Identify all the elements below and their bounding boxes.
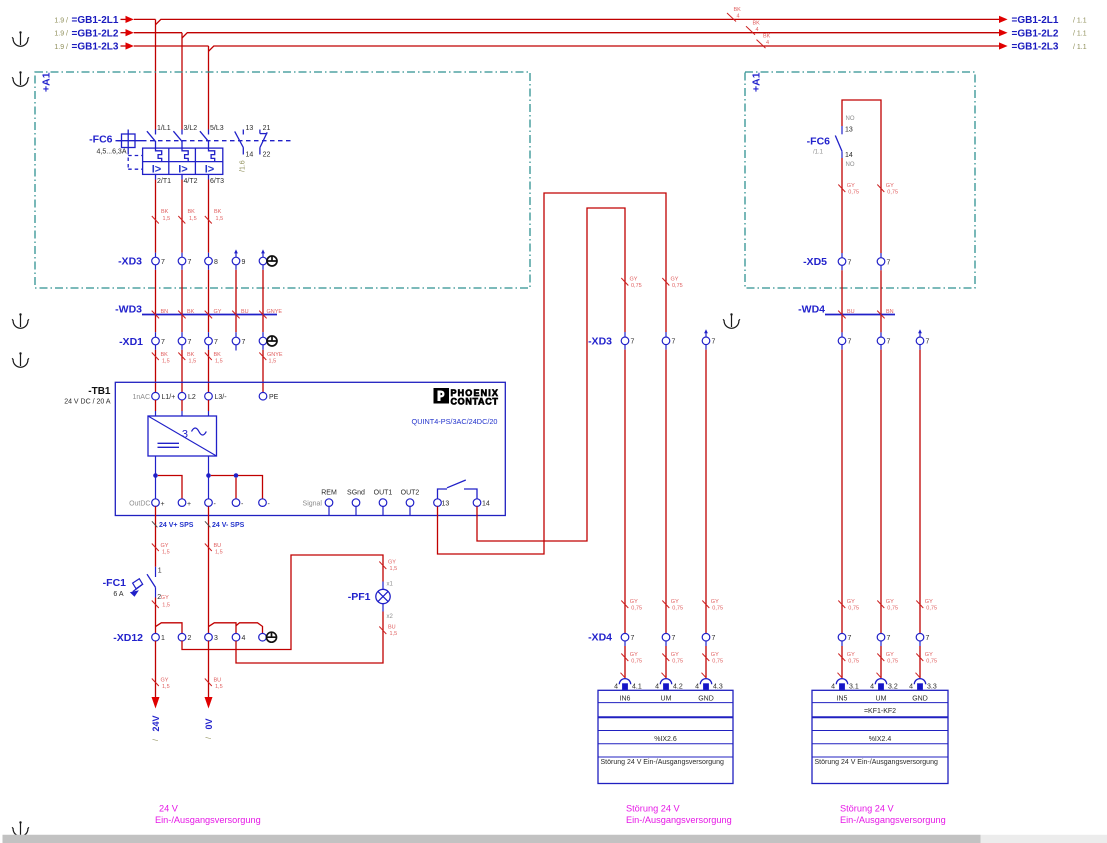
- svg-text:GY: GY: [886, 599, 894, 605]
- wire FC1:2 to XD12:1 with GY 1,5: [152, 595, 170, 633]
- svg-text:GY: GY: [161, 678, 169, 684]
- wire XD1:7b to TB1 L2 with BK 1,5: [178, 345, 196, 393]
- terminal XD12:2: [178, 633, 191, 642]
- svg-text:-TB1: -TB1: [88, 386, 111, 397]
- svg-text:BK: BK: [763, 34, 771, 40]
- svg-text:/: /: [153, 739, 160, 741]
- svg-text:Ein-/Ausgangsversorgung: Ein-/Ausgangsversorgung: [840, 815, 946, 825]
- svg-text:/ 1.1: / 1.1: [1073, 31, 1087, 38]
- svg-text:2/T1: 2/T1: [157, 178, 171, 185]
- jumper bridge XD12 1-2: [156, 623, 183, 633]
- svg-text:BU: BU: [241, 309, 249, 315]
- svg-text:BN: BN: [886, 309, 894, 315]
- wire 6/T3 to XD3:8 with BK 1,5: [205, 180, 223, 253]
- svg-text:7: 7: [242, 339, 246, 346]
- svg-text:/: /: [206, 737, 213, 739]
- svg-text:1,5: 1,5: [216, 216, 224, 222]
- svg-text:4: 4: [242, 635, 246, 642]
- svg-text:6/T3: 6/T3: [210, 178, 224, 185]
- svg-text:1,5: 1,5: [162, 550, 170, 556]
- svg-text:GND: GND: [698, 696, 714, 703]
- svg-text:GY: GY: [711, 652, 719, 658]
- svg-text:7: 7: [161, 259, 165, 266]
- wire XD3:7b to XD1:7b: [181, 265, 183, 337]
- svg-text:GY: GY: [671, 652, 679, 658]
- terminal row right:7 c with arrow stub: [916, 329, 929, 345]
- svg-text:I>: I>: [205, 163, 214, 175]
- svg-text:7: 7: [887, 339, 891, 346]
- svg-text:L1/+: L1/+: [162, 394, 176, 401]
- svg-text:GY: GY: [925, 652, 933, 658]
- wire right a to plug 3.1 with GY 0,75: [838, 641, 860, 678]
- svg-text:SGnd: SGnd: [347, 489, 365, 496]
- TB1 output terminal +2: [178, 499, 191, 508]
- svg-text:/1.6: /1.6: [240, 160, 247, 172]
- svg-text:0,75: 0,75: [926, 659, 937, 665]
- svg-text:BK: BK: [161, 209, 169, 215]
- svg-text:3: 3: [182, 429, 188, 441]
- terminal XD3mid:7 a: [621, 337, 634, 346]
- anchor clip symbol mid-left 4: [12, 352, 29, 367]
- svg-text:I>: I>: [178, 163, 187, 175]
- PLC input box right (IN5 KF1-KF2): [812, 690, 948, 783]
- svg-text:0,75: 0,75: [672, 606, 683, 612]
- svg-text:1,5: 1,5: [189, 359, 197, 365]
- svg-text:OUT2: OUT2: [401, 489, 420, 496]
- FC6 aux NO contact 13/14 right: [807, 116, 855, 168]
- svg-text:GNYE: GNYE: [267, 309, 283, 315]
- svg-text:BU: BU: [847, 309, 855, 315]
- svg-text:BK: BK: [187, 309, 195, 315]
- svg-text:7: 7: [926, 339, 930, 346]
- svg-text:0,75: 0,75: [848, 606, 859, 612]
- wire XD3:PE to XD1:PE: [262, 265, 264, 337]
- terminal XD5:7 a: [838, 258, 851, 267]
- svg-text:-XD1: -XD1: [119, 336, 143, 348]
- svg-text:GY: GY: [886, 183, 894, 189]
- svg-text:GY: GY: [630, 599, 638, 605]
- wire XD4 c to plug 4.3 with GY 0,75: [702, 641, 724, 678]
- TB1 input terminal PE: [259, 392, 278, 401]
- FC6 aux contact mirror (right) hairpin wire: [842, 100, 881, 258]
- svg-text:-XD12: -XD12: [113, 632, 143, 644]
- wire XD3:9 to XD1:7d: [235, 265, 237, 337]
- wire XD5 b down to WD4 row b: [880, 265, 882, 337]
- wire XD3mid a to XD4 a with GY 0,75: [621, 345, 642, 634]
- svg-text:0,75: 0,75: [631, 606, 642, 612]
- svg-text:21: 21: [263, 125, 271, 132]
- wire XD1:7c to TB1 L3/- with BK 1,5: [205, 345, 223, 393]
- TB1 output terminal -2: [232, 499, 244, 508]
- svg-text:+A1: +A1: [41, 72, 53, 92]
- svg-text:4,5...6,3A: 4,5...6,3A: [97, 149, 127, 156]
- wire TB1:13 loop to XD3 middle b: [438, 193, 667, 554]
- wire right c to plug 3.3 with GY 0,75: [916, 641, 938, 678]
- plug pin 4.1: [614, 679, 642, 691]
- svg-text:GY: GY: [630, 652, 638, 658]
- svg-text:7: 7: [214, 339, 218, 346]
- FC6 aux contact 13/14: [235, 125, 254, 159]
- terminal strip XD1 label: [119, 336, 143, 348]
- svg-text:OUT1: OUT1: [374, 489, 393, 496]
- svg-text:7: 7: [672, 635, 676, 642]
- wire XD5 a down to WD4 row a: [841, 265, 843, 337]
- plug pin 3.2: [870, 679, 898, 691]
- plug pin 4.3: [695, 679, 723, 691]
- svg-text:Störung 24 V Ein-/Ausgangsvers: Störung 24 V Ein-/Ausgangsversorgung: [815, 759, 938, 766]
- wire right b to plug 3.2 with GY 0,75: [877, 641, 899, 678]
- svg-text:22: 22: [263, 152, 271, 159]
- power supply TB1 box: [64, 382, 505, 515]
- wire PF1:x2 to XD12:4 with BU 1,5: [236, 612, 397, 664]
- terminal strip XD5 label: [803, 256, 827, 268]
- svg-text:4: 4: [756, 27, 759, 33]
- svg-text:1,5: 1,5: [163, 216, 171, 222]
- svg-text:L2: L2: [188, 394, 196, 401]
- terminal XD3mid:7 c with arrow stub: [702, 329, 715, 345]
- svg-text:/ 1.1: / 1.1: [1073, 44, 1087, 51]
- svg-text:-FC6: -FC6: [89, 134, 112, 146]
- TB1 relay contact 13/14: [434, 480, 490, 508]
- terminal right row2:7 b: [877, 633, 890, 642]
- svg-text:UM: UM: [661, 696, 672, 703]
- svg-text:QUINT4-PS/3AC/24DC/20: QUINT4-PS/3AC/24DC/20: [412, 417, 498, 426]
- svg-text:1,5: 1,5: [162, 603, 170, 609]
- svg-text:5/L3: 5/L3: [210, 125, 224, 132]
- TB1 output wiring with junction dots: [153, 456, 262, 499]
- svg-text:13: 13: [246, 125, 254, 132]
- wire L3 drop to FC6 pole 3: [208, 46, 210, 130]
- svg-text:BK: BK: [161, 352, 169, 358]
- svg-text:3: 3: [214, 635, 218, 642]
- svg-text:1,5: 1,5: [215, 359, 223, 365]
- svg-text:Ein-/Ausgangsversorgung: Ein-/Ausgangsversorgung: [626, 815, 732, 825]
- svg-text:1,5: 1,5: [215, 684, 223, 690]
- svg-text:0,75: 0,75: [672, 659, 683, 665]
- svg-text:BK: BK: [214, 209, 222, 215]
- svg-text:-PF1: -PF1: [348, 591, 371, 603]
- wire right c down with GY 0,75: [916, 345, 937, 634]
- jumper bridge XD12 3-4: [209, 623, 237, 633]
- wire L1 drop to FC6 pole 1: [155, 19, 157, 129]
- svg-text:IN5: IN5: [837, 696, 848, 703]
- svg-text:-XD5: -XD5: [803, 256, 827, 268]
- TB1 output terminal -3: [259, 499, 271, 508]
- svg-text:-FC6: -FC6: [807, 136, 830, 148]
- TB1 signal terminal OUT2: [401, 489, 420, 515]
- svg-text:1,5: 1,5: [162, 359, 170, 365]
- svg-text:4: 4: [766, 40, 769, 46]
- terminal XD1:7 b: [178, 337, 191, 346]
- svg-text:24V: 24V: [151, 715, 161, 731]
- terminal XD1:PE: [259, 336, 277, 346]
- svg-text:-XD3: -XD3: [118, 256, 142, 268]
- terminal XD1:7 d with dead stub: [232, 337, 245, 350]
- Phoenix Contact logo: [434, 388, 499, 407]
- wire 2/T1 to XD3:7 with BK 1,5: [152, 180, 170, 253]
- svg-text:7: 7: [887, 635, 891, 642]
- indicator lamp PF1: [348, 582, 394, 621]
- svg-text:-WD3: -WD3: [115, 304, 142, 316]
- svg-text:=GB1-2L3: =GB1-2L3: [1012, 42, 1059, 53]
- enclosure box +A1 left (dashed): [35, 72, 530, 288]
- svg-text:-XD4: -XD4: [588, 632, 612, 644]
- svg-text:13: 13: [845, 127, 853, 134]
- terminal strip XD4 label: [588, 632, 612, 644]
- svg-text:GY: GY: [847, 652, 855, 658]
- svg-text:1,5: 1,5: [390, 631, 398, 637]
- wire XD3mid c to XD4 c with GY 0,75: [702, 345, 723, 634]
- wire right a down with GY 0,75: [838, 345, 859, 634]
- svg-text:14: 14: [482, 501, 490, 508]
- terminal XD4:7 b: [662, 633, 675, 642]
- FC6 aux cross-reference /1.6: [240, 160, 247, 172]
- svg-text:GY: GY: [847, 599, 855, 605]
- svg-text:L3/-: L3/-: [215, 394, 228, 401]
- svg-text:7: 7: [631, 635, 635, 642]
- svg-text:8: 8: [214, 259, 218, 266]
- wire XD3mid b to XD4 b with GY 0,75: [662, 345, 683, 634]
- anchor clip symbol center 5: [723, 313, 740, 328]
- TB1 output terminal -1: [205, 499, 217, 508]
- svg-text:Ein-/Ausgangsversorgung: Ein-/Ausgangsversorgung: [155, 815, 261, 825]
- svg-text:/1.1: /1.1: [813, 150, 824, 156]
- svg-text:BU: BU: [214, 678, 222, 684]
- terminal right row2:7 a: [838, 633, 851, 642]
- svg-text:1: 1: [161, 635, 165, 642]
- svg-text:0,75: 0,75: [712, 606, 723, 612]
- svg-text:=GB1-2L1: =GB1-2L1: [72, 15, 119, 26]
- svg-text:14: 14: [246, 152, 254, 159]
- svg-text:7: 7: [926, 635, 930, 642]
- svg-text:x2: x2: [387, 614, 394, 620]
- svg-text:7: 7: [161, 339, 165, 346]
- svg-text:GY: GY: [925, 599, 933, 605]
- svg-text:GY: GY: [847, 183, 855, 189]
- svg-text:2: 2: [188, 635, 192, 642]
- function text Störung 24V middle (magenta): [626, 804, 732, 826]
- terminal XD1:7 c: [205, 337, 218, 346]
- svg-text:IN6: IN6: [620, 696, 631, 703]
- wire XD1:PE to TB1 PE with GNYE 1,5: [259, 345, 283, 393]
- svg-text:BK: BK: [214, 352, 222, 358]
- svg-text:+: +: [161, 501, 165, 508]
- terminal strip XD3 middle label: [588, 335, 612, 347]
- function text 24V left (magenta): [155, 804, 261, 826]
- svg-text:0,75: 0,75: [712, 659, 723, 665]
- jumper bridge XD12 4-PE: [236, 623, 263, 633]
- svg-text:Signal: Signal: [303, 501, 323, 508]
- svg-text:1,5: 1,5: [390, 566, 398, 572]
- TB1 output terminal +1: [129, 499, 165, 508]
- svg-text:GY: GY: [214, 309, 222, 315]
- wire XD3:8 to XD1:7c: [208, 265, 210, 337]
- svg-text:4: 4: [737, 14, 740, 20]
- FC6 I> overcurrent labels: [152, 163, 214, 175]
- wire slash BK 4 on bus L3: [757, 34, 771, 49]
- terminal XD3:7 b: [178, 253, 191, 266]
- terminal XD12:4: [232, 633, 245, 642]
- svg-text:7: 7: [188, 259, 192, 266]
- svg-text:1,5: 1,5: [189, 216, 197, 222]
- TB1 signal terminal SGnd: [347, 489, 365, 515]
- svg-text:4/T2: 4/T2: [184, 178, 198, 185]
- svg-text:-FC1: -FC1: [103, 577, 126, 589]
- svg-text:BU: BU: [214, 543, 222, 549]
- svg-text:Störung 24 V: Störung 24 V: [840, 804, 895, 814]
- svg-text:GY: GY: [671, 277, 679, 283]
- svg-text:OutDC: OutDC: [129, 501, 150, 508]
- FC6 pole 2 contact 3/L2: [173, 125, 197, 148]
- FC6 aux contact 21/22 (NC): [260, 125, 271, 159]
- svg-text:I>: I>: [152, 163, 161, 175]
- svg-text:0,75: 0,75: [848, 659, 859, 665]
- svg-text:7: 7: [672, 339, 676, 346]
- potential arrow 0V output: [204, 641, 223, 739]
- PLC input box middle (IN6): [598, 690, 733, 783]
- anchor clip symbol bottom-left 6 (clipped by scrollbar): [12, 821, 29, 836]
- FC6 pole 1 contact 1/L1: [147, 125, 171, 148]
- svg-text:1.9 /: 1.9 /: [54, 44, 68, 51]
- terminal XD4:7 c: [702, 633, 715, 642]
- terminal XD12:PE: [259, 632, 277, 642]
- svg-text:GY: GY: [630, 277, 638, 283]
- terminal XD3mid:7 b: [662, 337, 675, 346]
- terminal XD5:7 b: [877, 258, 890, 267]
- svg-text:0,75: 0,75: [848, 190, 859, 196]
- TB1 type label QUINT4: [412, 417, 498, 426]
- svg-text:14: 14: [845, 152, 853, 159]
- wire slash GY 0,75 above XD3 mid b: [662, 277, 682, 290]
- terminal XD3:PE with arrow stub: [259, 249, 277, 266]
- terminal row right:7 b: [877, 337, 890, 346]
- svg-text:NO: NO: [846, 162, 855, 168]
- svg-text:GY: GY: [711, 599, 719, 605]
- wire L2 drop to FC6 pole 2: [181, 33, 183, 130]
- svg-text:0,75: 0,75: [631, 659, 642, 665]
- svg-text:7: 7: [188, 339, 192, 346]
- svg-text:GY: GY: [161, 543, 169, 549]
- svg-text:GY: GY: [161, 595, 169, 601]
- svg-text:7: 7: [887, 259, 891, 266]
- svg-text:GY: GY: [671, 599, 679, 605]
- svg-text:BK: BK: [187, 352, 195, 358]
- TB1 input terminal L3/-: [205, 392, 228, 416]
- TB1 input terminal L2: [178, 392, 196, 416]
- plug pin 4.2: [655, 679, 683, 691]
- svg-text:BK: BK: [734, 7, 742, 13]
- cable WD4: [798, 304, 895, 319]
- svg-text:7: 7: [631, 339, 635, 346]
- wire XD12:2 to PF1:x1 with GY 1,5: [182, 555, 397, 650]
- svg-text:BK: BK: [753, 20, 761, 26]
- wire slash GY 0,75 right leg: [877, 183, 898, 196]
- circuit breaker FC1: [103, 567, 162, 601]
- svg-text:CONTACT: CONTACT: [451, 397, 499, 407]
- svg-text:GND: GND: [912, 696, 928, 703]
- wire TB1:14 loop to XD3 middle a: [477, 208, 625, 541]
- svg-text:24 V DC / 20 A: 24 V DC / 20 A: [64, 399, 111, 406]
- svg-text:Störung 24 V: Störung 24 V: [626, 804, 681, 814]
- node =GB1-2L1 bus line: [54, 15, 1086, 26]
- svg-text:UM: UM: [876, 696, 887, 703]
- TB1 signal terminal REM: [303, 489, 337, 515]
- svg-text:0,75: 0,75: [631, 283, 642, 289]
- svg-text:7: 7: [712, 635, 716, 642]
- FC6 overload box with thermal elements: [143, 148, 223, 174]
- svg-text:%IX2.4: %IX2.4: [869, 736, 892, 743]
- svg-text:=GB1-2L2: =GB1-2L2: [72, 28, 119, 39]
- svg-text:x1: x1: [387, 582, 394, 588]
- wire right b down with GY 0,75: [877, 345, 898, 634]
- svg-text:24 V- SPS: 24 V- SPS: [212, 522, 245, 529]
- svg-text:7: 7: [848, 259, 852, 266]
- svg-text:7: 7: [848, 635, 852, 642]
- cable WD3: [115, 304, 282, 319]
- FC6 trip dashed links to overload box: [128, 151, 142, 169]
- svg-text:GY: GY: [388, 560, 396, 566]
- svg-text:+A1: +A1: [751, 72, 763, 92]
- FC6 output terminals 2/T1 4/T2 6/T3: [156, 174, 225, 185]
- svg-text:=GB1-2L1: =GB1-2L1: [1012, 15, 1059, 26]
- svg-text:1.9 /: 1.9 /: [54, 31, 68, 38]
- svg-text:13: 13: [442, 501, 450, 508]
- wire 24V+ SPS from TB1 +: [152, 506, 194, 566]
- svg-text:7: 7: [712, 339, 716, 346]
- svg-text:0,75: 0,75: [672, 283, 683, 289]
- svg-text:-WD4: -WD4: [798, 304, 825, 316]
- svg-text:0,75: 0,75: [887, 659, 898, 665]
- wire XD3:7a to XD1:7a: [155, 265, 157, 337]
- wire slash GY 0,75 above XD3 mid a: [621, 277, 641, 290]
- svg-text:3/L2: 3/L2: [184, 125, 198, 132]
- svg-text:1,5: 1,5: [215, 550, 223, 556]
- svg-text:1: 1: [158, 568, 162, 575]
- wire slash BK 4 on bus L2: [746, 20, 760, 35]
- terminal XD12:3: [205, 633, 218, 642]
- terminal XD3:7 a: [152, 253, 165, 266]
- wire 24V- SPS from TB1 -: [205, 506, 245, 633]
- svg-text:%IX2.6: %IX2.6: [654, 736, 677, 743]
- motor breaker FC6 label: [89, 134, 127, 156]
- wire XD4 b to plug 4.2 with GY 0,75: [662, 641, 684, 678]
- svg-text:BK: BK: [188, 209, 196, 215]
- terminal row right:7 a: [838, 337, 851, 346]
- anchor clip symbol mid-left 3: [12, 313, 29, 328]
- svg-text:24 V: 24 V: [159, 804, 179, 814]
- svg-text:9: 9: [242, 259, 246, 266]
- plug pin 3.3: [909, 679, 937, 691]
- svg-text:0,75: 0,75: [926, 606, 937, 612]
- terminal XD4:7 a: [621, 633, 634, 642]
- svg-text:BN: BN: [161, 309, 169, 315]
- svg-text:REM: REM: [321, 489, 337, 496]
- svg-text:6 A: 6 A: [113, 591, 123, 598]
- terminal right row2:7 c: [916, 633, 929, 642]
- terminal XD1:7 a: [152, 337, 165, 346]
- FC6 actuator dashed link line: [142, 140, 294, 142]
- svg-text:=GB1-2L2: =GB1-2L2: [1012, 28, 1059, 39]
- svg-text:NO: NO: [846, 116, 855, 122]
- svg-text:1,5: 1,5: [269, 359, 277, 365]
- svg-text:+: +: [187, 501, 191, 508]
- enclosure box +A1 right (dashed): [745, 72, 975, 288]
- function text Störung 24V right (magenta): [840, 804, 946, 826]
- svg-text:=GB1-2L3: =GB1-2L3: [72, 42, 119, 53]
- wire XD4 a to plug 4.1 with GY 0,75: [621, 641, 643, 678]
- svg-text:-XD3: -XD3: [588, 335, 612, 347]
- wire 4/T2 to XD3:7 with BK 1,5: [178, 180, 196, 253]
